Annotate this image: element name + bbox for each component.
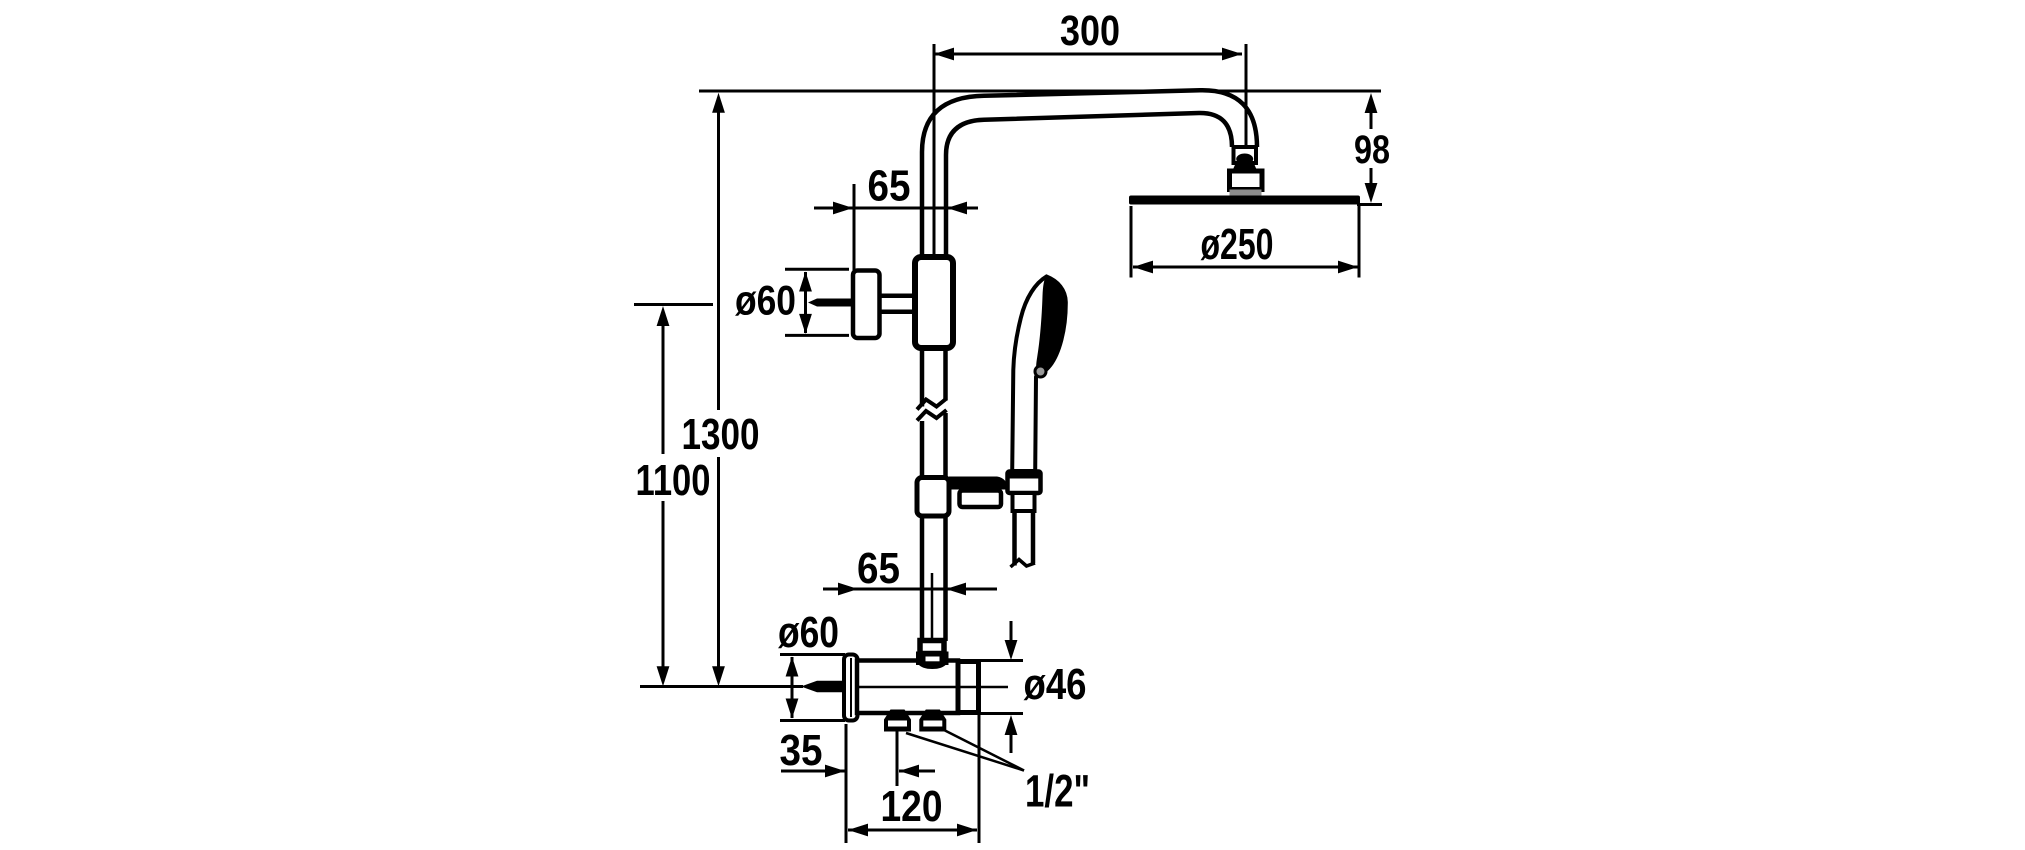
dimension 35 line left — [781, 770, 846, 773]
dimension d46 extension bottom — [978, 712, 1023, 715]
outlet fitting 1 — [884, 710, 911, 732]
dimension d46 arrow down — [1005, 640, 1018, 660]
dimension d60 upper line — [804, 272, 807, 333]
thermostat valve body — [857, 661, 958, 714]
svg-text:1100: 1100 — [636, 456, 711, 505]
lower wall screw — [801, 681, 844, 693]
dimension d250 arrow right — [1338, 261, 1358, 274]
upper wall flange — [853, 271, 880, 339]
hand shower neck — [1013, 493, 1035, 511]
dimension 1100 line upper segment — [662, 324, 665, 454]
dimension 120 arrow right — [957, 824, 977, 837]
dimension 65 upper extension — [853, 184, 856, 271]
upper wall screw — [808, 299, 853, 307]
dimension d60 lower arrow up — [786, 657, 799, 677]
dimension d60 upper arrow up — [799, 272, 812, 292]
hose left edge — [1012, 511, 1017, 566]
riser pipe right edge upper — [943, 348, 948, 401]
pipe break squiggle upper — [917, 399, 947, 410]
bottom reference line — [640, 685, 803, 688]
riser pipe right edge lower — [943, 413, 948, 641]
dimension d60 lower arrow down — [786, 699, 799, 719]
dimension 120 line — [848, 829, 977, 832]
dimension 98 line lower segment — [1370, 168, 1373, 186]
dimension d46 bottom shaft — [1010, 733, 1013, 753]
svg-text:ø60: ø60 — [735, 277, 796, 324]
dimension 1100 arrow up — [657, 306, 670, 326]
dimension 35 arrow right-pointing — [825, 765, 845, 778]
hand shower silhouette — [1012, 277, 1066, 472]
dimension 1100 line lower segment — [662, 501, 665, 667]
svg-text:65: 65 — [857, 544, 900, 593]
dimension 1300 arrow down — [712, 666, 725, 686]
svg-text:1300: 1300 — [682, 410, 760, 459]
svg-text:1/2": 1/2" — [1025, 766, 1090, 817]
dimension d250 line — [1133, 266, 1358, 269]
hand shower collar — [1008, 472, 1041, 494]
ball joint ball — [1236, 154, 1253, 165]
shower arm inner edge — [946, 113, 1232, 258]
valve centerline — [857, 686, 1008, 689]
riser pipe left edge upper — [920, 348, 925, 407]
dimension d250 arrow left — [1133, 261, 1153, 274]
dimension d46 top shaft — [1010, 621, 1013, 641]
svg-text:120: 120 — [881, 782, 943, 831]
svg-text:ø60: ø60 — [778, 608, 839, 657]
valve end cap — [958, 662, 979, 713]
outlet fitting 2 — [919, 710, 946, 732]
top reference line — [699, 90, 1381, 93]
riser base bump — [918, 664, 947, 669]
dimension 65 lower arrow right — [946, 583, 966, 596]
svg-text:35: 35 — [780, 726, 823, 775]
lower wall flange inner line — [850, 658, 852, 717]
rain shower head plate — [1129, 196, 1360, 205]
hose break squiggle — [1011, 560, 1036, 568]
leader line outlet 2 — [943, 730, 1024, 771]
ball joint collar — [1233, 163, 1258, 171]
dimension 1300 line lower segment — [717, 457, 720, 667]
riser base nut lower — [916, 652, 949, 666]
dimension 35 arrow left-pointing — [899, 765, 919, 778]
hand shower holder band — [949, 477, 1008, 490]
dimension 98 bottom extension — [1357, 203, 1382, 206]
dimension d46 arrow up — [1005, 715, 1018, 735]
dimension 300 line — [934, 53, 1242, 56]
dimension 98 arrow up — [1365, 93, 1378, 113]
dimension d60 lower line — [791, 657, 794, 718]
riser base nut slot — [926, 657, 940, 662]
dimension d250 extension right — [1358, 206, 1361, 278]
dimension d60 lower extension bottom — [780, 719, 845, 722]
dimension 65 upper arrow right — [947, 202, 967, 215]
svg-text:ø46: ø46 — [1024, 660, 1087, 709]
dimension 120 extension right — [978, 715, 981, 843]
dimension 300 extension right — [1245, 44, 1248, 147]
dimension 1300 line upper segment — [717, 111, 720, 410]
head connection gray band — [1230, 190, 1262, 197]
dimension 1300 arrow up — [712, 93, 725, 113]
dimension 300 extension left / riser centerline — [933, 44, 936, 257]
dimension 65 lower line — [823, 588, 997, 591]
ball joint housing — [1234, 147, 1257, 163]
svg-text:ø250: ø250 — [1201, 220, 1274, 269]
pipe break squiggle lower — [917, 410, 947, 421]
wall plane extension — [845, 724, 848, 843]
hand shower holder window — [960, 491, 1002, 508]
dimension d60 lower extension top — [780, 653, 845, 656]
dimension 300 arrow right — [1222, 48, 1242, 61]
hose right edge — [1031, 511, 1036, 563]
dimension 1100 arrow down — [657, 666, 670, 686]
dimension d46 extension top — [978, 659, 1023, 662]
dimension 120 arrow left — [848, 824, 868, 837]
dimension d60 upper extension top — [785, 268, 849, 271]
dimension 1100 top tick — [634, 303, 713, 306]
dimension 65 upper line — [814, 207, 978, 210]
riser slider sleeve — [915, 257, 953, 348]
outlet fitting 1 slot — [888, 721, 907, 727]
svg-text:98: 98 — [1354, 128, 1390, 172]
dimension 65 upper arrow left — [833, 202, 853, 215]
hand shower slider block — [917, 478, 949, 517]
dimension 35 line right — [899, 770, 935, 773]
hand shower collar top edge — [1008, 474, 1041, 479]
shower arm outer edge — [922, 90, 1257, 258]
upper bracket rod top edge — [878, 293, 919, 298]
riser pipe left edge lower — [920, 421, 925, 641]
dimension d250 extension left — [1130, 206, 1133, 278]
svg-text:300: 300 — [1060, 7, 1120, 55]
leader line outlet 1 — [906, 733, 1024, 771]
svg-text:65: 65 — [868, 162, 911, 211]
hand shower hook loop — [1035, 366, 1046, 377]
dimension 65 lower arrow left — [838, 583, 858, 596]
riser base nut upper — [920, 641, 944, 654]
riser lower centerline — [931, 573, 934, 638]
dimension 98 line upper segment — [1370, 110, 1373, 129]
dimension d60 upper extension bottom — [785, 334, 849, 337]
dimension 300 arrow left — [934, 48, 954, 61]
outlet 1 extension — [896, 729, 899, 786]
dimension d60 upper arrow down — [799, 314, 812, 334]
upper bracket rod bottom edge — [878, 309, 919, 314]
dimension 98 arrow down — [1365, 183, 1378, 203]
lower wall flange — [844, 655, 858, 721]
hand shower spray face — [1036, 277, 1066, 373]
head connection nut — [1230, 171, 1263, 190]
outlet fitting 2 slot — [923, 721, 942, 727]
